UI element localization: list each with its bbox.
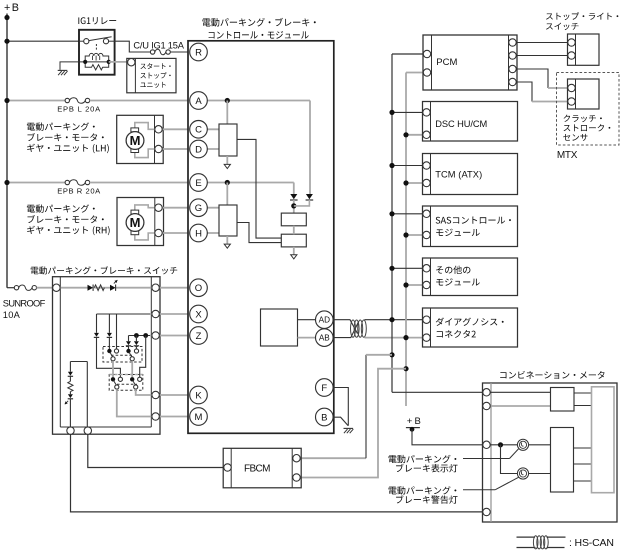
FBCM pins bbox=[224, 464, 231, 471]
diagnosis connector 2 pins bbox=[423, 316, 430, 323]
motor LH brushes bbox=[131, 128, 139, 132]
wires lamp driver to gauge block bbox=[574, 447, 592, 449]
LED indicator branch (switch) bbox=[70, 361, 87, 363]
wire fuse SUNROOF to EPB switch bbox=[37, 287, 55, 289]
wire relay output to fuse C/U IG1 bbox=[115, 41, 151, 52]
svg-text:B: B bbox=[321, 412, 327, 423]
wire motor LH to module pin C bbox=[156, 128, 188, 130]
EPB control module box U1 bbox=[188, 41, 334, 434]
svg-text:10A: 10A bbox=[3, 310, 21, 320]
upper switch pole 2 contacts and arm bbox=[126, 349, 130, 353]
svg-text:EPB L 20A: EPB L 20A bbox=[57, 104, 101, 113]
svg-text:G: G bbox=[195, 203, 202, 214]
wire lower pole 1 to module pin M bbox=[117, 389, 199, 416]
svg-text:M: M bbox=[130, 215, 141, 230]
driver block 2 (RH) bbox=[219, 205, 237, 236]
driver 1 output arrow bbox=[226, 156, 228, 164]
start-stop unit box bbox=[127, 58, 176, 92]
wire motor RH to module pin G bbox=[156, 207, 188, 209]
wire transceiver to pin AB (CAN-L) bbox=[298, 337, 316, 339]
wire pin F to ground bbox=[333, 388, 348, 426]
wire bus to combination meter pin 1 bbox=[392, 391, 483, 393]
diode D8 (internal, from A) bbox=[306, 194, 313, 199]
wire bus to SAS control module pins bbox=[392, 213, 427, 215]
wire motor RH to module pin H bbox=[156, 232, 188, 234]
relay IG1 box bbox=[79, 30, 115, 75]
wire transceiver to pin AD (CAN-H) bbox=[298, 319, 316, 321]
svg-text:R: R bbox=[195, 47, 202, 58]
EPB motor gear unit LH label bbox=[27, 122, 95, 130]
SAS control module pins bbox=[423, 210, 430, 217]
EPB indicator light label bbox=[389, 455, 457, 463]
motor RH symbol M2 bbox=[126, 214, 144, 232]
svg-text:X: X bbox=[195, 309, 202, 320]
SAS control module box bbox=[423, 206, 518, 247]
wire drop to upper pole 1 open contact bbox=[116, 314, 118, 349]
clutch stroke sensor label bbox=[564, 115, 602, 123]
lamp L1 switch arm and label leader bbox=[463, 458, 510, 460]
MTX dashed box bbox=[557, 73, 620, 146]
clutch stroke sensor box bbox=[568, 79, 600, 109]
logic block B bbox=[281, 234, 306, 247]
lower switch pole 2 contacts and arm bbox=[130, 377, 134, 381]
wire driver 2 to logic block B bbox=[237, 223, 281, 243]
relay IG1 mechanical link (dashed) bbox=[95, 44, 97, 51]
junction dots on CAN-H bus bbox=[389, 110, 394, 115]
TCM pins bbox=[423, 162, 430, 169]
relay IG1 label bbox=[78, 17, 116, 24]
fuse SUNROOF 10A bbox=[19, 285, 32, 290]
diode D3 and common of upper switch pole 1 bbox=[108, 314, 110, 333]
EPB switch connector pins bbox=[53, 284, 60, 291]
twisted pair symbol bbox=[351, 320, 356, 337]
wire fuse to module pin R bbox=[170, 51, 188, 53]
meter internal CAN wires bbox=[490, 391, 550, 393]
wire +B rail vertical bbox=[6, 14, 8, 288]
svg-text:+B: +B bbox=[407, 416, 421, 427]
wire pin D to driver 1 bbox=[199, 148, 220, 150]
svg-text:AB: AB bbox=[319, 334, 330, 343]
svg-text:DSC HU/CM: DSC HU/CM bbox=[435, 119, 487, 129]
svg-text:PCM: PCM bbox=[436, 57, 457, 68]
svg-text:SUNROOF: SUNROOF bbox=[3, 299, 46, 309]
wire CAN-L bus (vertical) bbox=[405, 73, 407, 407]
clutch stroke sensor pins bbox=[568, 84, 575, 91]
svg-text:C/U IG1 15A: C/U IG1 15A bbox=[133, 41, 184, 51]
wire bus to PCM pin 2 bbox=[406, 72, 427, 74]
svg-text:TCM (ATX): TCM (ATX) bbox=[435, 170, 482, 180]
motor LH internal wiring bbox=[135, 123, 155, 130]
DSC HU/CM box bbox=[423, 102, 518, 142]
driver 2 output arrow bbox=[226, 236, 228, 244]
wire fuse EPB L to module pin A bbox=[90, 100, 188, 102]
wire bus to PCM pin 1 bbox=[392, 53, 427, 55]
wire rail to fuse SUNROOF bbox=[7, 287, 14, 289]
svg-text:FBCM: FBCM bbox=[244, 464, 271, 475]
CAN transceiver block bbox=[261, 309, 298, 346]
wire relay coil to ground bbox=[60, 62, 79, 70]
svg-text:K: K bbox=[195, 390, 202, 401]
svg-text:C: C bbox=[195, 125, 202, 136]
svg-text:Z: Z bbox=[196, 331, 202, 342]
svg-text:+B: +B bbox=[4, 2, 19, 14]
stop light switch box bbox=[568, 34, 600, 65]
upper switch pole 1 contacts and arm bbox=[107, 349, 111, 353]
meter pins bbox=[483, 389, 490, 396]
lamp L2 switch arm and label leader bbox=[463, 489, 495, 491]
svg-text:M: M bbox=[195, 412, 203, 423]
resistor R1 (illumination) bbox=[94, 285, 104, 291]
svg-text:A: A bbox=[195, 96, 202, 107]
wire Z row to lower pole 2 open contact bbox=[143, 333, 148, 338]
fuse EPB L 20A bbox=[70, 98, 86, 103]
wire EPB switch apply row (X row) bbox=[97, 313, 152, 315]
wire relay coil to start-stop unit bbox=[109, 61, 128, 63]
meter gauge block bbox=[592, 387, 615, 493]
wire PCM to clutch stroke sensor (1) bbox=[513, 69, 549, 88]
wire switch rows to module pins O X Z bbox=[150, 287, 199, 289]
logic block B output arrow bbox=[293, 247, 295, 255]
svg-text:EPB R 20A: EPB R 20A bbox=[57, 186, 101, 195]
wire LED branch return leg bbox=[86, 362, 88, 427]
wire switch to FBCM bbox=[88, 434, 224, 467]
wire bus to DSC HU/CM pins bbox=[392, 111, 427, 113]
TCM box bbox=[423, 154, 518, 195]
wire FBCM pin to CAN-H bus bbox=[297, 457, 367, 459]
combination meter box bbox=[483, 383, 618, 522]
wire rail to fuse EPB R bbox=[7, 182, 65, 184]
fuse C/U IG1 15A bbox=[155, 49, 166, 54]
wire pin C to driver 1 bbox=[199, 128, 220, 130]
wire EPB switch illumination row (pin to pin) bbox=[56, 287, 87, 289]
wire pin E to internal driver and diode bbox=[199, 182, 294, 184]
relay IG1 coil suppression resistor bbox=[85, 62, 109, 70]
relay IG1 switch contacts bbox=[79, 40, 84, 42]
relay IG1 coil bbox=[85, 53, 109, 62]
wire upper pole 2 arm to lower pole 2 common bbox=[131, 361, 133, 377]
fuse EPB R 20A bbox=[70, 180, 86, 185]
diode D6 bbox=[68, 372, 73, 376]
diode D4 upper pole 2 common bbox=[128, 336, 130, 342]
wire PCM to stop light switch (1) bbox=[513, 42, 572, 44]
svg-text:AD: AD bbox=[319, 316, 330, 325]
wire twisted pair to diagnosis connector (CAN-H) bbox=[365, 319, 427, 321]
stop light switch label bbox=[546, 12, 618, 20]
wire bus to combination meter pin 2 bbox=[405, 482, 407, 484]
wire FBCM pin to CAN-L bus bbox=[297, 369, 407, 478]
mechanical link upper switch (dashed box) bbox=[103, 347, 142, 363]
svg-text:MTX: MTX bbox=[557, 150, 578, 161]
other modules box bbox=[423, 258, 518, 296]
diagnosis connector 2 box bbox=[423, 308, 518, 347]
svg-text:H: H bbox=[195, 228, 202, 239]
EPB indicator lamp L1 bbox=[517, 439, 528, 450]
lower switch pole 1 contacts and arm bbox=[111, 377, 115, 381]
wire upper pole 1 arm to lower pole 1 common bbox=[112, 361, 114, 377]
svg-text:E: E bbox=[195, 178, 201, 189]
PCM box bbox=[423, 35, 517, 90]
EPB motor gear unit RH box bbox=[117, 198, 164, 246]
EPB switch box bbox=[53, 277, 161, 435]
EPB motor gear unit RH label bbox=[27, 204, 95, 212]
ground (module F/B) bbox=[344, 427, 354, 429]
svg-text:M: M bbox=[130, 133, 141, 148]
wire EPB switch release row (Z row) bbox=[129, 335, 152, 337]
svg-text:F: F bbox=[321, 383, 327, 394]
svg-text:: HS-CAN: : HS-CAN bbox=[569, 537, 614, 549]
EPB motor gear unit LH box bbox=[117, 115, 164, 163]
svg-text:D: D bbox=[195, 144, 202, 155]
wire pin AD to twisted pair (CAN-H) bbox=[333, 320, 357, 334]
ground (relay coil) bbox=[58, 69, 68, 71]
junction dots on CAN-L bus bbox=[403, 132, 408, 137]
driver block 1 (LH) bbox=[219, 124, 237, 156]
wire fuse EPB R to module pin E bbox=[90, 182, 188, 184]
meter CAN block bbox=[551, 388, 575, 412]
diode D1 (illumination) bbox=[88, 285, 94, 291]
LED (switch indicator) bbox=[68, 394, 73, 398]
wire pin B to ground bbox=[333, 417, 348, 425]
resistor R2 bbox=[68, 381, 73, 391]
wire pin G to driver 2 bbox=[199, 207, 220, 209]
meter lamp supply wiring bbox=[490, 444, 517, 446]
combination meter label bbox=[500, 371, 604, 379]
wire PCM to clutch stroke sensor (2) bbox=[513, 82, 533, 102]
EPB warning light label bbox=[389, 486, 457, 494]
diode D5 upper pole 2 open contact bbox=[134, 333, 139, 338]
logic block A bbox=[281, 213, 306, 226]
wire pin H to driver 2 bbox=[199, 232, 220, 234]
wire PCM to stop light switch (2) bbox=[513, 55, 572, 57]
wire rail to IG1 relay bbox=[7, 40, 79, 42]
diode D7 (internal, from E) bbox=[290, 194, 297, 199]
wire lower pole 2 to module pin K bbox=[136, 389, 199, 395]
wire drop to NC contact with diode D2 bbox=[96, 314, 98, 333]
start-stop unit label bbox=[140, 63, 170, 69]
module pins AD AB F B bbox=[316, 311, 334, 329]
wire pin AB to twisted pair (CAN-L) bbox=[333, 322, 358, 337]
wire switch to combination meter pin (illumination ground) bbox=[71, 434, 483, 512]
motor RH brushes bbox=[131, 210, 139, 214]
module pins R A C D E G H O X Z K M bbox=[190, 43, 208, 61]
wire bus to TCM pins bbox=[392, 165, 427, 167]
meter lamp driver block bbox=[551, 428, 574, 493]
legend twisted pair = HS-CAN bbox=[517, 536, 536, 538]
PCM pins bbox=[423, 50, 430, 57]
other modules pins bbox=[423, 265, 430, 272]
LED (illumination) bbox=[110, 285, 116, 291]
EPB control module label bbox=[202, 18, 315, 27]
stop light switch pins bbox=[568, 39, 575, 46]
DSC HU/CM pins bbox=[423, 109, 430, 116]
wire twisted pair to diagnosis connector (CAN-L) bbox=[365, 337, 427, 339]
start-stop unit pin bbox=[128, 59, 135, 66]
wire CAN-H bus (vertical) bbox=[391, 54, 393, 392]
wire driver 1 to logic block B bbox=[237, 139, 281, 238]
motor RH internal wiring bbox=[135, 205, 155, 210]
wire rail to fuse EPB L bbox=[7, 100, 65, 102]
EPB warning lamp L2 bbox=[517, 468, 528, 479]
wire motor LH to module pin D bbox=[156, 148, 188, 150]
EPB switch label bbox=[31, 266, 178, 274]
FBCM box bbox=[223, 448, 301, 488]
motor LH symbol M1 bbox=[126, 132, 144, 150]
mechanical link lower switch (dashed box) bbox=[109, 375, 143, 391]
svg-text:O: O bbox=[195, 283, 202, 294]
wire pin A to internal driver and diode bbox=[199, 100, 311, 102]
wire bus to other modules pins bbox=[392, 267, 427, 269]
